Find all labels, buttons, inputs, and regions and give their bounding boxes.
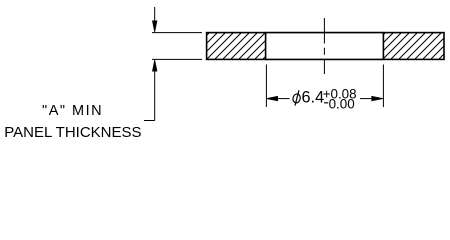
svg-text:0.00: 0.00	[329, 97, 355, 112]
dimension line right segment with arrow pointing right	[360, 96, 383, 101]
hole dimension extension line right	[382, 65, 384, 108]
hole centerline	[323, 18, 325, 74]
panel top surface line across hole	[266, 32, 384, 34]
thickness arrow bottom (points up) + leader to label	[144, 60, 157, 121]
svg-text:6.4: 6.4	[302, 89, 325, 107]
diameter symbol (phi)	[292, 90, 301, 105]
thickness extension line bottom	[152, 58, 202, 60]
panel bottom surface line across hole	[266, 58, 384, 60]
svg-text:"A" MIN: "A" MIN	[42, 103, 103, 119]
tolerance -0.00 (minus drawn as line, raised like plus bar)	[324, 97, 355, 112]
thickness arrow top (points down)	[152, 7, 157, 32]
panel section left hatched area	[207, 33, 266, 60]
thickness extension line top	[152, 32, 202, 34]
hole dimension extension line left	[265, 65, 267, 108]
svg-text:PANEL THICKNESS: PANEL THICKNESS	[4, 124, 141, 141]
panel section right hatched area	[383, 33, 444, 60]
dimension line left segment with arrow pointing left	[266, 96, 289, 101]
